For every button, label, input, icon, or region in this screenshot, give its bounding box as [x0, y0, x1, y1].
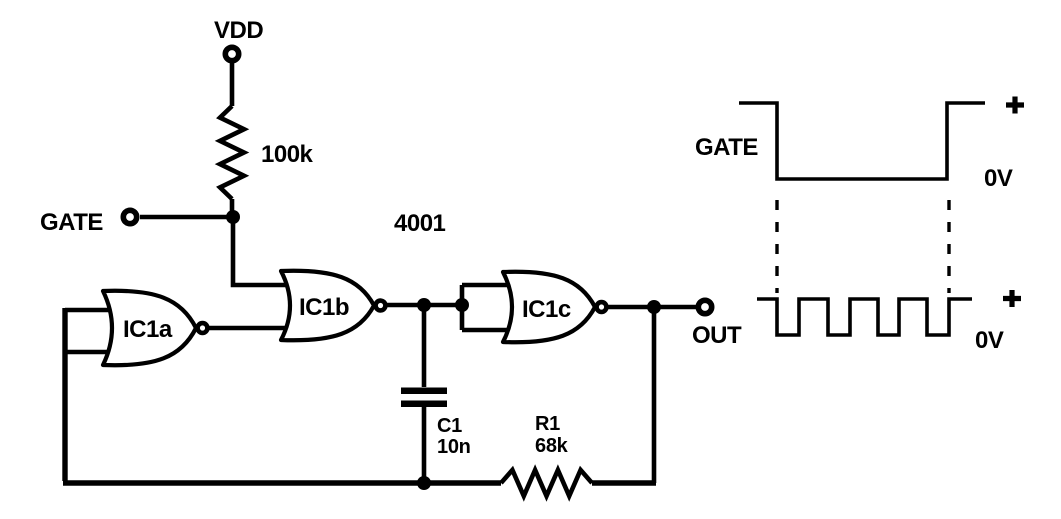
- svg-text:IC1b: IC1b: [299, 294, 349, 321]
- svg-text:100k: 100k: [261, 141, 314, 168]
- svg-text:C1: C1: [437, 415, 462, 437]
- svg-text:68k: 68k: [535, 435, 569, 457]
- svg-text:IC1c: IC1c: [522, 296, 571, 323]
- svg-text:OUT: OUT: [692, 322, 742, 349]
- svg-text:R1: R1: [535, 413, 560, 435]
- svg-text:GATE: GATE: [40, 209, 103, 236]
- svg-text:VDD: VDD: [214, 17, 263, 44]
- svg-text:10n: 10n: [437, 436, 471, 458]
- svg-text:IC1a: IC1a: [123, 316, 173, 343]
- svg-text:0V: 0V: [975, 327, 1004, 354]
- svg-text:GATE: GATE: [695, 134, 758, 161]
- svg-text:0V: 0V: [984, 165, 1013, 192]
- svg-text:4001: 4001: [394, 210, 446, 237]
